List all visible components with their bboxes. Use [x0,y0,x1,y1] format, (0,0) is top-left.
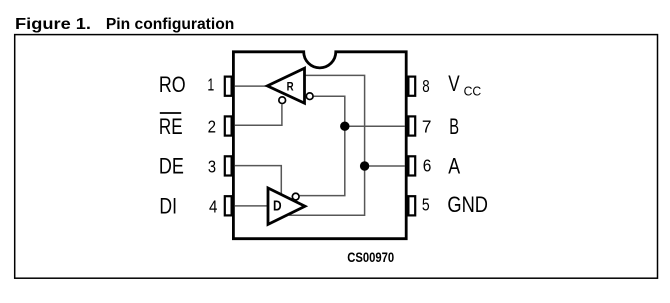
driver D triangle [268,188,305,224]
pin 6 stub [408,156,415,175]
pin 5 stub [408,196,415,215]
wire pin1 RO to R apex [235,85,267,87]
svg-text:Pin configuration: Pin configuration [106,16,234,33]
svg-text:RO: RO [159,72,186,97]
RE overline [160,112,181,114]
svg-text:DI: DI [159,193,177,218]
receiver R triangle [267,68,304,103]
svg-text:GND: GND [447,192,488,217]
svg-text:CS00970: CS00970 [347,250,394,265]
pin 1 stub [225,77,232,96]
wire pin4 DI to D input [235,205,268,207]
svg-text:1: 1 [207,75,214,95]
wire net B: pin7 to junction [345,125,405,127]
svg-text:RE: RE [159,114,183,139]
svg-text:8: 8 [422,76,429,96]
pin 4 stub [225,196,232,215]
pin 7 stub [408,116,415,135]
svg-text:3: 3 [208,157,216,177]
wire net A: R input to D output [289,75,364,215]
wire net A: pin6 to junction [365,165,405,167]
svg-text:R: R [287,80,294,94]
junction node A [360,161,369,170]
svg-text:A: A [448,154,460,179]
svg-text:7: 7 [422,117,432,137]
figure border frame [15,35,658,279]
pin 8 stub [408,77,415,96]
svg-text:4: 4 [209,197,218,217]
R enable bubble [279,97,286,104]
svg-text:CC: CC [464,83,482,98]
svg-text:Figure 1.: Figure 1. [15,16,91,33]
R inverting input bubble [306,93,313,100]
svg-text:V: V [448,71,459,96]
svg-text:2: 2 [208,117,216,137]
junction node B [340,122,349,131]
svg-text:B: B [449,114,459,139]
pin 2 stub [225,116,232,135]
D inverted output bubble [292,193,299,200]
wire pin3 DE to D enable [235,166,282,195]
svg-text:D: D [273,199,282,215]
svg-text:6: 6 [423,156,432,176]
wire net B: R inverting bubble to D inverted output bubble [300,96,345,195]
IC package body with index notch [233,52,406,239]
svg-text:5: 5 [422,195,430,215]
pin 3 stub [225,156,232,175]
wire pin2 RE to R enable bubble [235,104,282,125]
svg-text:DE: DE [159,154,184,179]
